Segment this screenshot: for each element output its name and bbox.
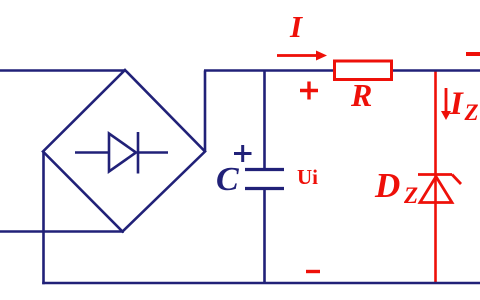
svg-text:I: I: [449, 86, 464, 122]
minus sign top right: [466, 52, 480, 56]
current arrow I: [277, 51, 327, 61]
arrow IZ: [441, 88, 451, 120]
svg-text:Z: Z: [403, 183, 418, 208]
bridge rectifier diamond: [43, 70, 205, 232]
svg-text:D: D: [374, 166, 400, 205]
top rail wire: [204, 69, 480, 72]
svg-text:Z: Z: [464, 100, 479, 125]
wire lower AC input: [0, 230, 124, 233]
zener branch wire: [434, 71, 437, 284]
svg-text:I: I: [289, 9, 303, 44]
plus sign at capacitor: [234, 145, 252, 162]
wire right vertex up to top rail: [204, 71, 207, 153]
wire top AC input: [0, 69, 126, 72]
svg-text:Ui: Ui: [297, 165, 318, 189]
zener diode DZ symbol: [418, 175, 461, 203]
wire left vertex down to bottom rail: [42, 152, 45, 285]
resistor R body: [335, 61, 392, 80]
svg-text:C: C: [216, 161, 239, 198]
plus sign output: [300, 82, 318, 100]
svg-text:R: R: [350, 77, 372, 113]
minus sign bottom: [306, 270, 320, 273]
capacitor C: [245, 71, 284, 284]
diode inside bridge: [75, 132, 168, 174]
bottom rail wire: [42, 282, 480, 285]
